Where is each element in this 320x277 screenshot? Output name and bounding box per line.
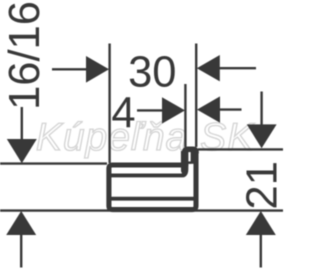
wire: dim 30 left tail: [52, 68, 87, 70]
svg-text:16/16: 16/16: [1, 1, 49, 110]
wire: right section line top: [198, 148, 283, 150]
node: extension line right of 30/4: [195, 44, 197, 148]
profile: hook claw tip: [181, 163, 188, 177]
arrow: 21 up: [246, 211, 276, 235]
profile: inner top line: [110, 173, 183, 177]
wire: left section line top (wall line): [0, 162, 107, 164]
node: extension line left of 4: [184, 84, 186, 147]
wire: dim 4 left tail: [137, 109, 163, 111]
wire: dim 16/16 vertical line: [21, 107, 23, 141]
svg-text:Kúpeľňa SK: Kúpeľňa SK: [36, 116, 255, 159]
node: extension line left of 30: [108, 44, 110, 164]
profile: tab right leg block: [191, 150, 194, 164]
arrow: 30 right (points left): [197, 55, 220, 81]
arrow: 16/16 down: [7, 139, 37, 163]
svg-text:4: 4: [111, 90, 135, 138]
arrow: 4 left (points right): [162, 97, 185, 123]
wire: dim 21 lower tail: [260, 234, 262, 268]
wire: dim 21 upper line: [260, 92, 262, 127]
profile: hook leg: [181, 151, 189, 166]
wire: dim 4 right tail: [219, 108, 242, 110]
wire: dim 30 right tail: [219, 67, 256, 69]
profile: inner bottom line: [110, 197, 194, 201]
wire: dim 16/16 lower tail: [20, 234, 22, 268]
arrow: 21 down: [247, 124, 277, 148]
wire: bottom section line: [0, 209, 283, 211]
arrow: 30 left (points right): [86, 56, 109, 83]
profile: hook-to-wall bridge: [188, 161, 192, 164]
arrow: 4 right (points left): [197, 96, 220, 122]
arrow: 16/16 up: [6, 211, 36, 235]
svg-text:21: 21: [239, 161, 283, 209]
profile: outer contour (left wall, top edge, bottom edge, right wall): [109, 152, 196, 210]
profile: hanger tab top: [185, 149, 196, 160]
